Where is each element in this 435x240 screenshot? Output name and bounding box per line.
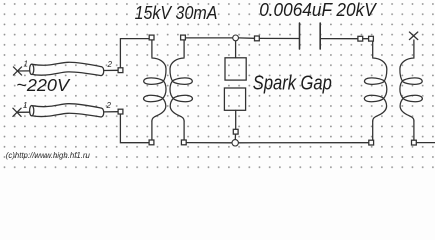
wire [186,37,233,39]
terminal X2 (mains input, lower) [13,108,21,116]
node N2 (junction circle) [232,140,238,146]
wire [120,114,148,142]
svg-text:2: 2 [107,60,113,69]
wire [260,37,299,39]
terminal square S2 (cable 2 to wire) [118,109,123,114]
wire [18,70,30,72]
transformer T1 primary winding [144,40,166,140]
terminal square S1 (cable 1 to wire) [118,68,123,73]
wire [17,111,30,113]
terminal square: T1 primary bottom [149,140,154,145]
terminal square: T1 primary top [149,35,154,40]
wire [235,110,237,129]
wire [321,38,358,40]
wire [417,142,435,144]
svg-text:(c)http://www.high.hf1.ru: (c)http://www.high.hf1.ru [6,151,91,160]
svg-text:~220V: ~220V [16,75,71,95]
terminal square S11 (T2 secondary bottom) [412,140,417,145]
terminal square S9 (T2 primary top) [369,36,374,41]
spark gap electrode (lower box) [224,88,245,110]
wire [239,37,255,39]
svg-text:1: 1 [23,101,27,110]
cable L2 (lower mains cord) [30,104,104,117]
svg-text:1: 1 [24,60,28,69]
terminal square S12 (spark gap bottom) [233,129,238,134]
svg-text:0.0064uF 20kV: 0.0064uF 20kV [259,0,377,20]
terminal square: T1 secondary bottom [181,140,186,145]
svg-text:15kV 30mA: 15kV 30mA [135,3,218,23]
terminal X1 (mains input, upper) [13,67,21,75]
wire [363,38,368,40]
transformer T2 primary winding [364,41,386,140]
terminal square S8 (capacitor right) [358,36,363,41]
terminal square S7 [255,36,260,41]
terminal square S10 (T2 primary bottom) [369,140,374,145]
capacitor C1 [300,23,321,49]
node N1 (junction circle) [233,35,239,41]
wire [235,41,237,58]
svg-text:2: 2 [106,101,112,110]
transformer T1 secondary winding [170,40,192,140]
cable L1 (upper mains cord) [30,62,104,75]
terminal square: T1 secondary top [181,35,186,40]
wire [187,142,232,144]
wire [234,134,236,139]
wire [104,69,118,71]
spark gap electrode (upper box) [225,58,246,80]
transformer T2 secondary winding [400,40,422,140]
wire [104,111,118,113]
svg-text:Spark Gap: Spark Gap [253,72,332,95]
wire [239,142,369,144]
terminal X3 (T2 secondary top / discharge terminal) [409,32,417,40]
wire [120,39,149,68]
